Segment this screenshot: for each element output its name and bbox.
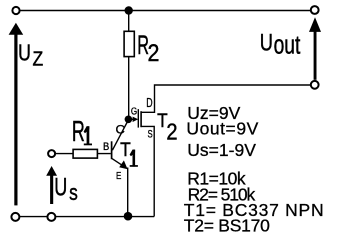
svg-text:out: out: [274, 29, 301, 59]
svg-text:E: E: [116, 170, 121, 181]
svg-text:2: 2: [148, 40, 160, 66]
svg-text:D: D: [146, 97, 152, 111]
svg-text:U: U: [18, 40, 31, 66]
svg-text:T: T: [120, 140, 131, 161]
svg-text:Z: Z: [32, 47, 43, 69]
svg-text:G: G: [131, 105, 137, 116]
svg-text:S: S: [148, 128, 153, 141]
svg-text:T2= BS170: T2= BS170: [184, 215, 270, 235]
svg-text:Us=1-9V: Us=1-9V: [187, 140, 256, 160]
svg-text:B: B: [103, 141, 110, 153]
svg-text:s: s: [69, 181, 78, 205]
svg-text:R: R: [72, 116, 85, 148]
svg-text:2: 2: [166, 118, 177, 145]
svg-text:U: U: [54, 173, 67, 202]
svg-text:C: C: [115, 123, 124, 136]
svg-text:Uout=9V: Uout=9V: [186, 119, 258, 139]
svg-text:U: U: [260, 30, 273, 56]
